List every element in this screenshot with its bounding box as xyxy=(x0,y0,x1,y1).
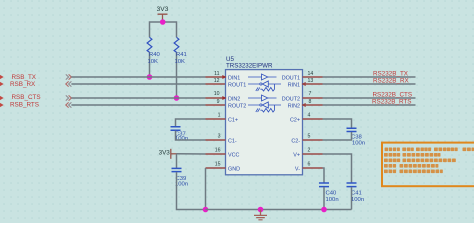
note text line 3 xyxy=(384,159,456,163)
wire RS232B_TX xyxy=(323,76,416,78)
svg-text:10K: 10K xyxy=(148,59,159,65)
pin 1 stub xyxy=(206,118,226,120)
wire RSB_RTS to pin 9 xyxy=(71,104,205,106)
svg-text:ROUT1: ROUT1 xyxy=(228,82,246,88)
wire RS232B_CTS xyxy=(323,97,416,99)
resistor R40 xyxy=(147,37,160,77)
entry chevron RSB_RTS (left pointing) xyxy=(66,102,72,107)
wire C38 to pin 5 xyxy=(323,132,352,140)
note text line 4 xyxy=(384,164,438,168)
capacitor C38 xyxy=(347,128,366,146)
svg-text:8: 8 xyxy=(309,99,312,105)
wire pin15 down to rail xyxy=(205,168,207,210)
svg-text:3V3: 3V3 xyxy=(159,149,171,156)
wire RSB_RX to pin 12 xyxy=(71,83,205,85)
svg-text:R41: R41 xyxy=(176,52,187,58)
wire RS232B_RX xyxy=(323,83,416,85)
svg-text:13: 13 xyxy=(308,78,314,84)
port RSB_RTS xyxy=(0,101,39,108)
svg-text:6: 6 xyxy=(308,162,311,168)
pin 12 stub xyxy=(206,83,226,85)
wire pin4 to C38 xyxy=(323,119,352,128)
wire pin2 to C41 xyxy=(323,154,352,183)
svg-text:TRS3232EIPWR: TRS3232EIPWR xyxy=(226,63,273,70)
junction dot C40/rail xyxy=(321,207,327,213)
pin 14 stub xyxy=(303,76,323,78)
pin 13 stub xyxy=(303,83,323,85)
svg-text:RS232B_CTS: RS232B_CTS xyxy=(373,91,413,98)
pin 4 stub xyxy=(303,118,323,120)
input arrow pin 10 xyxy=(222,96,226,100)
svg-text:100n: 100n xyxy=(326,197,339,203)
note box xyxy=(382,143,474,187)
svg-text:RSB_RTS: RSB_RTS xyxy=(10,101,39,108)
wire C37 to pin 3 xyxy=(176,131,206,140)
driver buffer channel 2 xyxy=(248,95,277,101)
port RSB_CTS xyxy=(0,94,41,101)
svg-text:GND: GND xyxy=(228,166,240,172)
svg-text:C1-: C1- xyxy=(228,138,237,144)
svg-text:C1+: C1+ xyxy=(228,117,238,123)
svg-text:DIN2: DIN2 xyxy=(228,96,240,102)
svg-text:RSB_TX: RSB_TX xyxy=(12,74,37,81)
svg-text:C2-: C2- xyxy=(291,138,300,144)
port RSB_RX xyxy=(0,81,36,88)
ground symbol xyxy=(254,210,267,220)
internal pulldown resistor channel 1 xyxy=(256,84,275,91)
junction dot pin15/rail xyxy=(203,207,209,213)
pin 7 stub xyxy=(303,97,323,99)
wire pin6 to C40 xyxy=(323,168,325,183)
svg-text:RS232B_RTS: RS232B_RTS xyxy=(372,98,411,105)
svg-text:11: 11 xyxy=(214,71,219,77)
ground rail xyxy=(206,209,352,211)
svg-text:7: 7 xyxy=(309,91,312,97)
svg-text:100n: 100n xyxy=(351,197,364,203)
entry chevron RSB_CTS (right pointing) xyxy=(66,95,72,100)
junction dot GND/rail xyxy=(258,207,264,213)
svg-text:16: 16 xyxy=(215,148,221,154)
pin 15 stub xyxy=(206,167,226,169)
svg-text:100n: 100n xyxy=(352,141,365,147)
capacitor C40 xyxy=(319,183,339,203)
op-amp U5 body xyxy=(226,56,303,175)
pin 2 stub xyxy=(303,153,323,155)
power port 3V3 (top) xyxy=(157,6,169,22)
pin 16 stub xyxy=(206,153,226,155)
svg-text:100n: 100n xyxy=(175,136,188,142)
wire C39 to ground rail xyxy=(177,172,206,209)
internal pulldown resistor channel 2 xyxy=(256,105,275,112)
wire top split to R40/R41 xyxy=(150,22,177,37)
note text line 2 xyxy=(384,153,441,157)
input arrow pin 11 xyxy=(222,75,226,79)
capacitor C39 xyxy=(172,168,189,187)
input arrow pin 8 xyxy=(302,103,306,107)
svg-text:VCC: VCC xyxy=(228,152,239,158)
port RSB_TX xyxy=(0,74,37,81)
svg-text:ROUT2: ROUT2 xyxy=(228,103,246,109)
svg-text:C2+: C2+ xyxy=(290,117,300,123)
entry chevron RSB_RX (left pointing) xyxy=(66,81,72,86)
svg-text:3: 3 xyxy=(218,134,221,140)
wire RSB_CTS to pin 10 xyxy=(71,97,205,99)
junction dot R40/RSB_TX xyxy=(147,74,153,80)
svg-text:RS232B_RX: RS232B_RX xyxy=(373,77,410,84)
svg-text:10: 10 xyxy=(214,91,220,97)
wire RSB_TX to pin 11 xyxy=(71,76,205,78)
pin 10 stub xyxy=(206,97,226,99)
pin 8 stub xyxy=(303,104,323,106)
svg-text:C40: C40 xyxy=(326,191,338,197)
svg-text:DOUT1: DOUT1 xyxy=(282,75,300,81)
wire C40 to rail xyxy=(323,187,325,209)
capacitor C37 xyxy=(171,127,189,142)
svg-text:RSB_CTS: RSB_CTS xyxy=(12,94,41,101)
svg-text:DOUT2: DOUT2 xyxy=(282,96,300,102)
wire 3V3 to pin 16 xyxy=(177,153,206,155)
svg-text:14: 14 xyxy=(308,71,314,77)
svg-text:1: 1 xyxy=(218,113,221,119)
pin 9 stub xyxy=(206,104,226,106)
pin 3 stub xyxy=(206,139,226,141)
note text line 1 xyxy=(385,148,474,152)
svg-text:V-: V- xyxy=(295,166,300,172)
svg-text:RIN1: RIN1 xyxy=(288,82,300,88)
power port 3V3 (VCC) xyxy=(159,149,177,159)
resistor R41 xyxy=(174,37,187,98)
wire pin1 to C37 xyxy=(176,119,206,126)
svg-text:10K: 10K xyxy=(175,59,186,65)
pin 11 stub xyxy=(206,76,226,78)
svg-text:C38: C38 xyxy=(351,134,363,140)
svg-text:3V3: 3V3 xyxy=(157,6,169,13)
junction dot R41/RSB_CTS xyxy=(174,95,180,101)
receiver buffer channel 1 xyxy=(248,81,281,87)
input arrow pin 13 xyxy=(302,82,306,86)
svg-text:12: 12 xyxy=(214,78,220,84)
svg-text:5: 5 xyxy=(308,134,311,140)
svg-text:DIN1: DIN1 xyxy=(228,75,240,81)
wire C41 to rail xyxy=(351,187,353,209)
capacitor C41 xyxy=(347,183,365,203)
svg-text:2: 2 xyxy=(308,148,311,154)
receiver buffer channel 2 xyxy=(248,102,281,108)
svg-text:RIN2: RIN2 xyxy=(288,103,300,109)
svg-text:C41: C41 xyxy=(351,191,362,197)
junction dot node 3V3 xyxy=(160,19,166,25)
entry chevron RSB_TX (right pointing) xyxy=(66,74,72,79)
svg-text:9: 9 xyxy=(217,99,220,105)
note text line 5 xyxy=(384,170,443,174)
wire VCC tap down to C39 xyxy=(176,154,178,168)
svg-text:4: 4 xyxy=(308,113,311,119)
wire RS232B_RTS xyxy=(323,104,416,106)
svg-text:V+: V+ xyxy=(293,152,300,158)
driver buffer channel 1 xyxy=(248,74,277,80)
pin 6 stub xyxy=(303,167,323,169)
svg-text:R40: R40 xyxy=(149,52,161,58)
svg-text:RS232B_TX: RS232B_TX xyxy=(373,70,409,77)
svg-text:15: 15 xyxy=(215,162,221,168)
pin 5 stub xyxy=(303,139,323,141)
svg-text:RSB_RX: RSB_RX xyxy=(10,81,36,88)
